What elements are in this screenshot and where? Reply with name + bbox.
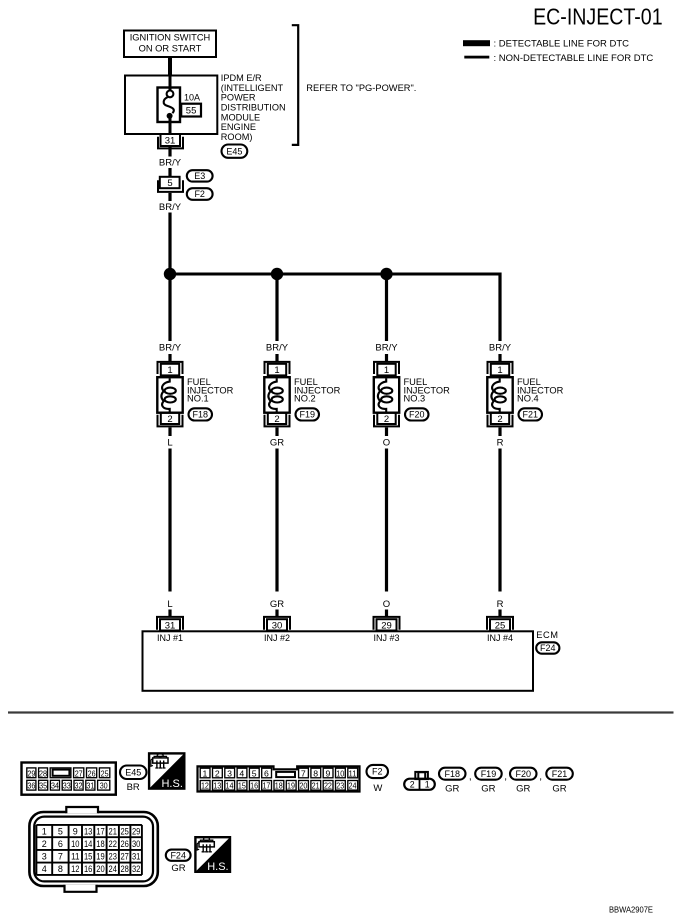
svg-text:BR/Y: BR/Y [159, 202, 182, 213]
svg-text:F20: F20 [409, 410, 425, 420]
svg-text:12: 12 [71, 864, 79, 874]
svg-text:17: 17 [96, 826, 104, 836]
svg-text:: DETECTABLE LINE FOR DTC: : DETECTABLE LINE FOR DTC [494, 38, 630, 49]
svg-text:21: 21 [109, 826, 117, 836]
F24 grid cells [36, 825, 141, 875]
long wire injector 3 to ECM [385, 449, 388, 592]
separator line [8, 711, 674, 713]
svg-text:27: 27 [75, 768, 83, 778]
svg-text:14: 14 [84, 839, 92, 849]
svg-text:NO.3: NO.3 [404, 394, 426, 404]
svg-text:GR: GR [270, 437, 284, 448]
svg-text:20: 20 [96, 864, 104, 874]
ECM pin 31 [157, 617, 183, 632]
svg-text:F18: F18 [444, 769, 460, 779]
fuel injector no.3 coil body [374, 377, 399, 413]
svg-text:25: 25 [495, 620, 506, 631]
svg-text:1: 1 [203, 768, 208, 778]
ECM pin 30 [264, 617, 290, 632]
svg-text:31: 31 [165, 136, 176, 147]
connector F20 oval (view) [510, 768, 537, 780]
svg-text:16: 16 [250, 781, 258, 791]
svg-text:3: 3 [42, 852, 47, 862]
wire bus to injector 1 [168, 274, 171, 341]
H.S. view icon (F24) [195, 837, 230, 873]
IPDM pin 31 [158, 134, 183, 148]
svg-text:BR: BR [127, 782, 140, 793]
svg-text:GR: GR [516, 783, 530, 794]
svg-text:32: 32 [75, 781, 83, 791]
svg-text:F20: F20 [515, 769, 531, 779]
svg-text:31: 31 [86, 781, 94, 791]
junction node 1 [164, 268, 176, 280]
fuel injector no.2 label [294, 377, 341, 404]
svg-text:BR/Y: BR/Y [489, 343, 512, 354]
svg-text:F24: F24 [170, 850, 186, 860]
svg-text:E3: E3 [194, 171, 205, 181]
svg-text:34: 34 [51, 781, 59, 791]
svg-text:INJ #4: INJ #4 [487, 633, 513, 643]
svg-text:29: 29 [132, 826, 140, 836]
svg-text:4: 4 [42, 864, 47, 874]
svg-text:INJ #1: INJ #1 [157, 633, 183, 643]
svg-text:REFER TO "PG-POWER".: REFER TO "PG-POWER". [306, 83, 416, 93]
fuel injector no.1 coil body [157, 377, 182, 413]
svg-text:5: 5 [167, 178, 172, 189]
connector F20 oval [405, 408, 429, 420]
svg-text:3: 3 [227, 768, 232, 778]
connector view F24 shell [29, 812, 157, 886]
connector F18 oval [189, 408, 213, 420]
svg-text:,: , [469, 771, 472, 782]
wire bus to injector 3 [385, 274, 388, 341]
F2 top row cells [200, 768, 357, 778]
long wire injector 2 to ECM [275, 449, 278, 592]
svg-text:5: 5 [58, 826, 63, 836]
connector view E45 shell [22, 763, 116, 795]
F24 bottom tab [65, 885, 97, 892]
fuel injector no.4 pin 1 [488, 362, 513, 376]
ECM pin 29 [374, 617, 400, 632]
wire below injector 3 [385, 428, 388, 437]
E45 bottom row cells [27, 780, 110, 790]
fuse 10A #55 [158, 76, 181, 135]
svg-text:1: 1 [497, 365, 502, 376]
fuel injector no.2 pin 1 [265, 362, 290, 376]
fuel injector no.2 coil body [264, 377, 289, 413]
svg-text:23: 23 [109, 852, 117, 862]
bus wire horizontal [168, 273, 500, 276]
F24 top tab [66, 807, 98, 813]
svg-text:2: 2 [384, 414, 389, 425]
svg-text:22: 22 [324, 781, 332, 791]
connector E3 oval [187, 170, 213, 181]
fuel injector no.4 coil body [487, 377, 512, 413]
fuel injector no.1 pin 2 [158, 413, 183, 427]
wire to connector 5 [168, 168, 171, 178]
svg-text:R: R [497, 599, 504, 610]
svg-text:: NON-DETECTABLE LINE FOR DTC: : NON-DETECTABLE LINE FOR DTC [494, 53, 654, 64]
svg-text:30: 30 [132, 839, 140, 849]
svg-text:ENGINE: ENGINE [221, 122, 256, 132]
svg-text:17: 17 [262, 781, 270, 791]
svg-text:H.S.: H.S. [207, 861, 228, 873]
svg-text:7: 7 [301, 768, 306, 778]
svg-text:20: 20 [299, 781, 307, 791]
svg-text:27: 27 [120, 852, 128, 862]
svg-text:GR: GR [481, 783, 495, 794]
svg-text:10A: 10A [184, 92, 200, 102]
svg-text:21: 21 [312, 781, 320, 791]
svg-text:1: 1 [425, 779, 430, 789]
fuel injector no.4 pin 2 [488, 413, 513, 427]
svg-text:6: 6 [58, 839, 63, 849]
svg-text:1: 1 [42, 826, 47, 836]
F2 key tab [276, 772, 295, 777]
svg-text:9: 9 [73, 826, 78, 836]
svg-text:6: 6 [264, 768, 269, 778]
svg-text:F21: F21 [552, 769, 568, 779]
svg-text:11: 11 [71, 852, 79, 862]
svg-text:F18: F18 [192, 410, 208, 420]
bus corner wire col4 [498, 273, 501, 342]
wire below injector 1 [168, 428, 171, 437]
svg-text:8: 8 [58, 864, 63, 874]
fuel injector no.4 label [517, 377, 564, 404]
fuel injector no.2 pin 2 [265, 413, 290, 427]
svg-text:31: 31 [165, 620, 176, 631]
svg-text:8: 8 [313, 768, 318, 778]
svg-text:GR: GR [270, 599, 284, 610]
connector E45 oval (view) [120, 766, 147, 780]
svg-text:5: 5 [252, 768, 257, 778]
svg-text:DISTRIBUTION: DISTRIBUTION [221, 102, 286, 112]
wire into ECM pin 30 [275, 610, 278, 617]
connector F2 oval [187, 188, 213, 200]
svg-text:25: 25 [120, 826, 128, 836]
injector connector 2-pin view [404, 772, 435, 790]
H.S. view icon (E45) [149, 753, 184, 790]
svg-text:33: 33 [63, 781, 71, 791]
svg-text:1: 1 [384, 365, 389, 376]
connector F24 oval (view) [166, 850, 191, 861]
svg-text:(INTELLIGENT: (INTELLIGENT [221, 83, 284, 93]
svg-text:24: 24 [349, 781, 357, 791]
wire below injector 2 [275, 428, 278, 437]
svg-text:36: 36 [27, 781, 35, 791]
svg-text:32: 32 [132, 864, 140, 874]
svg-text:1: 1 [274, 365, 279, 376]
svg-text:9: 9 [326, 768, 331, 778]
svg-text:ECM: ECM [536, 630, 558, 640]
svg-text:ROOM): ROOM) [221, 132, 253, 142]
svg-text:INJ #3: INJ #3 [373, 633, 399, 643]
wire bus to injector 2 [275, 274, 278, 341]
svg-text:POWER: POWER [221, 93, 256, 103]
svg-text:H.S.: H.S. [161, 778, 182, 790]
svg-text:2: 2 [410, 779, 415, 789]
svg-text:35: 35 [39, 781, 47, 791]
long wire injector 1 to ECM [168, 449, 171, 592]
svg-text:18: 18 [96, 839, 104, 849]
svg-text:E45: E45 [125, 767, 141, 777]
svg-text:F24: F24 [540, 643, 556, 653]
svg-text:F2: F2 [372, 767, 383, 777]
svg-text:19: 19 [96, 852, 104, 862]
inline connector pin 5 [158, 177, 183, 192]
ECM pin 25 [487, 617, 513, 632]
connector F19 oval (view) [475, 768, 502, 780]
svg-text:INJ #2: INJ #2 [264, 633, 290, 643]
svg-text:1: 1 [167, 365, 172, 376]
svg-text:7: 7 [58, 852, 63, 862]
svg-text:O: O [383, 437, 390, 448]
svg-text:L: L [167, 599, 172, 610]
wire into injector 1 [168, 354, 171, 362]
legend: non-detectable line sample [464, 56, 489, 59]
fuse number 55 box [181, 104, 201, 117]
long wire injector 4 to ECM [498, 449, 501, 592]
svg-text:F19: F19 [481, 769, 497, 779]
svg-text:13: 13 [84, 826, 92, 836]
svg-text:2: 2 [42, 839, 47, 849]
ECM box [143, 631, 534, 691]
svg-text:18: 18 [275, 781, 283, 791]
wire into ECM pin 29 [385, 610, 388, 617]
connector F2 oval (view) [367, 765, 389, 778]
svg-text:O: O [383, 599, 390, 610]
fuel injector no.3 pin 2 [374, 413, 399, 427]
svg-text:W: W [373, 783, 382, 794]
wire ignition switch to IPDM E/R [168, 57, 172, 77]
F2 bottom row cells [200, 781, 357, 791]
wire into ECM pin 25 [498, 610, 501, 617]
svg-text:28: 28 [39, 768, 47, 778]
svg-text:BR/Y: BR/Y [159, 158, 182, 169]
wire into injector 2 [275, 354, 278, 362]
svg-text:GR: GR [171, 863, 185, 874]
junction node 3 [380, 268, 392, 280]
wire below connector 5 [168, 193, 171, 201]
svg-text:25: 25 [101, 768, 109, 778]
svg-text:15: 15 [238, 781, 246, 791]
svg-text:13: 13 [213, 781, 221, 791]
connector F18 oval (view) [439, 768, 466, 780]
svg-text:11: 11 [349, 768, 357, 778]
fuel injector no.3 label [404, 377, 451, 404]
svg-text:23: 23 [336, 781, 344, 791]
svg-text:R: R [497, 437, 504, 448]
fuel injector no.1 label [187, 377, 234, 404]
svg-text:16: 16 [84, 864, 92, 874]
svg-text:GR: GR [445, 783, 459, 794]
svg-text:55: 55 [186, 105, 197, 116]
svg-text:NO.4: NO.4 [517, 394, 539, 404]
wire down to bus [168, 213, 171, 275]
wire into ECM pin 31 [168, 610, 171, 617]
svg-text:30: 30 [100, 781, 108, 791]
svg-text:31: 31 [132, 852, 140, 862]
svg-text:15: 15 [84, 852, 92, 862]
svg-text:L: L [167, 437, 172, 448]
svg-text:BR/Y: BR/Y [266, 343, 289, 354]
svg-text:GR: GR [552, 783, 566, 794]
fuel injector no.3 pin 1 [374, 362, 399, 376]
svg-text:,: , [539, 771, 542, 782]
svg-text:14: 14 [226, 781, 234, 791]
svg-text:29: 29 [27, 768, 35, 778]
refer bracket [292, 25, 298, 145]
connector F19 oval [296, 408, 320, 420]
svg-text:2: 2 [497, 414, 502, 425]
ignition switch box [124, 31, 216, 58]
wire into injector 3 [385, 354, 388, 362]
svg-text:2: 2 [274, 414, 279, 425]
legend: detectable line sample [463, 40, 490, 46]
svg-text:IPDM E/R: IPDM E/R [221, 73, 262, 83]
wire into injector 4 [498, 354, 501, 362]
svg-text:26: 26 [88, 768, 96, 778]
svg-text:22: 22 [109, 839, 117, 849]
svg-text:2: 2 [167, 414, 172, 425]
svg-text:F2: F2 [194, 189, 205, 199]
svg-text:10: 10 [71, 839, 79, 849]
fuel injector no.1 pin 1 [158, 362, 183, 376]
svg-text:26: 26 [120, 839, 128, 849]
svg-text:NO.1: NO.1 [187, 394, 209, 404]
svg-text:24: 24 [109, 864, 117, 874]
connector F24 oval (ECM) [536, 642, 559, 653]
svg-text:MODULE: MODULE [221, 112, 260, 122]
E45 top row cells [27, 768, 110, 778]
svg-text:F19: F19 [299, 410, 315, 420]
connector E45 oval (IPDM) [222, 145, 248, 158]
IPDM E/R box [125, 76, 217, 135]
wire below injector 4 [498, 428, 501, 437]
connector F21 oval [519, 408, 543, 420]
svg-text:10: 10 [336, 768, 344, 778]
svg-text:F21: F21 [522, 410, 538, 420]
junction node 2 [271, 268, 283, 280]
svg-text:2: 2 [215, 768, 220, 778]
svg-text:BR/Y: BR/Y [375, 343, 398, 354]
svg-text:28: 28 [120, 864, 128, 874]
svg-text:29: 29 [381, 620, 392, 631]
svg-text:ON OR START: ON OR START [139, 43, 202, 53]
svg-text:EC-INJECT-01: EC-INJECT-01 [533, 4, 663, 30]
svg-text:19: 19 [287, 781, 295, 791]
IPDM E/R label text [221, 73, 286, 142]
svg-text:E45: E45 [226, 146, 242, 156]
connector view F2 shell [198, 766, 360, 791]
wire pin31 down [168, 146, 171, 157]
E45 key slot [53, 770, 70, 776]
svg-text:12: 12 [201, 781, 209, 791]
svg-text:NO.2: NO.2 [294, 394, 316, 404]
svg-text:,: , [504, 771, 507, 782]
svg-text:BBWA2907E: BBWA2907E [609, 905, 653, 914]
svg-text:IGNITION SWITCH: IGNITION SWITCH [130, 33, 211, 43]
svg-text:4: 4 [239, 768, 244, 778]
svg-text:BR/Y: BR/Y [159, 343, 182, 354]
svg-text:30: 30 [272, 620, 283, 631]
connector F21 oval (view) [546, 768, 573, 780]
